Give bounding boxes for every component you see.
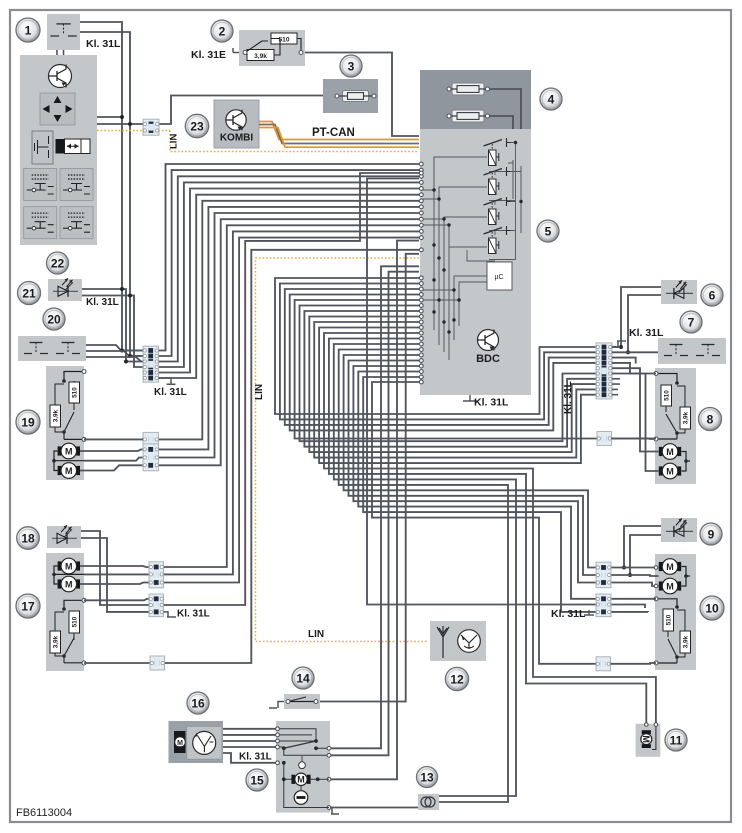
svg-text:FB6113004: FB6113004 (16, 807, 72, 819)
LIN dotted bus 2 (256, 258, 429, 642)
ignition switch component 2 (239, 30, 305, 66)
wire BDC to C5 pin3 (U-route) (285, 289, 596, 425)
wire C9 to box8 bottom (612, 438, 657, 440)
svg-text:21: 21 (22, 286, 36, 300)
svg-text:Kl. 31L: Kl. 31L (154, 387, 187, 398)
bus wire motors 17 (54, 566, 84, 584)
fuse component 3 (323, 79, 378, 113)
ground tail box14 (269, 702, 284, 709)
wire BDC to C4 row2 (159, 213, 420, 458)
svg-text:M: M (666, 581, 674, 591)
instrument cluster KOMBI component 23 (214, 100, 259, 148)
svg-text:3,9k: 3,9k (683, 411, 690, 424)
svg-text:5: 5 (545, 224, 552, 238)
resistor network in 17 (64, 600, 84, 609)
connector C4 (143, 444, 159, 471)
svg-text:M: M (666, 562, 674, 572)
ground tail box15 (330, 808, 339, 815)
label circle 1 (16, 18, 40, 42)
fuse 4a (452, 83, 484, 95)
wires inside 15 (284, 763, 329, 808)
wire component1 pin2 down to connector C2 pin2 (80, 32, 143, 356)
wire BDC to C5 pin2 (U-route) (280, 284, 596, 420)
svg-text:LIN: LIN (308, 629, 324, 640)
svg-text:M: M (65, 446, 73, 456)
label circle 23 (185, 114, 208, 137)
switch component 14 (284, 694, 320, 709)
stub wires C5 lower rows (612, 379, 620, 395)
wire C7 to box10 (612, 598, 657, 600)
wire box20 pin1 to C2 pin1 (86, 345, 143, 351)
svg-text:M: M (666, 447, 674, 457)
svg-text:510: 510 (666, 614, 673, 625)
svg-text:3,9k: 3,9k (53, 409, 60, 422)
wire component2 to BDC (305, 53, 419, 137)
svg-text:6: 6 (709, 288, 716, 302)
wire BDC to C5 pin8 (U-route) (309, 317, 596, 453)
svg-text:23: 23 (190, 119, 204, 133)
wire LED6 pin1 down (621, 287, 661, 347)
wire C6 common (612, 575, 659, 576)
PT-CAN wire gray (259, 125, 419, 144)
svg-text:17: 17 (21, 599, 35, 613)
wire box19 M1 to C4 row1 (80, 449, 143, 451)
wire component1 pin1 down to connector C2 pin1 (80, 22, 143, 351)
wire BDC to C7 row3 (363, 377, 596, 612)
wire fuse4a down (489, 89, 521, 166)
fan unit component 16 (169, 721, 224, 763)
wire module to v122 junction (97, 116, 122, 118)
svg-text:Kl. 31E: Kl. 31E (191, 49, 226, 61)
motor M in 17 upper (58, 558, 80, 574)
svg-text:3,9k: 3,9k (53, 635, 60, 648)
svg-text:KOMBI: KOMBI (220, 133, 254, 144)
wire box16 to box15 w1 (223, 728, 276, 730)
svg-text:M: M (177, 740, 183, 747)
wire box16 to box15 w5 ground (223, 753, 276, 763)
svg-text:M: M (641, 735, 651, 743)
svg-text:Kl. 31L: Kl. 31L (239, 752, 272, 763)
relays in BDC (489, 150, 497, 166)
connector C10 (149, 562, 164, 588)
wire C5 row1 ground (612, 346, 620, 348)
wire C7 row3 to box10 (612, 611, 649, 613)
pin box17 (82, 598, 86, 602)
motor component 11 (636, 724, 661, 757)
svg-text:µC: µC (494, 274, 503, 281)
svg-text:M: M (297, 775, 305, 785)
svg-text:BDC: BDC (476, 353, 500, 365)
wire BDC to C10 row1 (159, 225, 420, 567)
svg-text:13: 13 (420, 770, 434, 784)
svg-text:M: M (666, 466, 674, 476)
pin fuse outputs (519, 130, 523, 134)
wire BDC to motor11 pin2 feeder (329, 339, 646, 724)
wire BDC to C11 row2 (159, 173, 420, 605)
LIN dotted from module via C1 to BDC (97, 130, 170, 132)
svg-text:3: 3 (348, 59, 355, 73)
wire box17 common to C10 row2 (84, 573, 149, 575)
svg-text:Kl. 31L: Kl. 31L (629, 327, 664, 339)
svg-text:3,9k: 3,9k (254, 53, 267, 60)
wire BDC to C5 pin6 (U-route) (300, 306, 597, 442)
wire BDC to C2 pin5 (159, 189, 420, 373)
wire LED21 pin1 down to C2 pin3 (82, 289, 143, 362)
connector C5 (596, 343, 612, 399)
svg-text:18: 18 (21, 531, 35, 545)
ground tail C5 top (612, 341, 626, 347)
connector C6 (596, 562, 611, 588)
wire box16 to box15 w2 (223, 734, 276, 736)
BDC internal wiring (423, 157, 487, 190)
fuse carrier component 4 (420, 70, 531, 129)
wire C7 row2 to box10 (612, 605, 646, 609)
PT-CAN wire orange 2 (259, 128, 419, 148)
long wire BDC to switch14 via v406 (320, 254, 419, 702)
wire box17 M2 to C10 row3 (80, 583, 149, 585)
wire box17 bottom to C12 (84, 662, 150, 664)
connector C11 (149, 594, 164, 617)
label circle 6 (701, 284, 723, 306)
wire LED18 pin2 to C11 row3 (81, 538, 149, 612)
label circle 18 (17, 527, 40, 550)
motor M in 15 (291, 773, 310, 785)
sensor component 13 (418, 794, 439, 810)
wire LED6 pin2 down (628, 295, 661, 352)
wire BDC to C4 row3 (159, 219, 420, 465)
pins box11 (645, 723, 649, 727)
label circle 19 (16, 410, 40, 434)
motor M in 10 upper (659, 559, 681, 575)
long wire BDC to box15 pin1 via v379 (329, 266, 419, 748)
svg-text:4: 4 (548, 92, 555, 106)
label circle 21 (18, 282, 41, 305)
svg-text:Kl. 31L: Kl. 31L (86, 38, 121, 50)
wire C5 to box8 M2 (612, 374, 659, 472)
connector C12 (150, 656, 165, 670)
svg-text:Kl. 31L: Kl. 31L (86, 297, 119, 308)
wire BDC to sensor13 pin2 feeder (339, 350, 508, 803)
label circle 14 (292, 667, 314, 689)
wire BDC to C2 pin2 (159, 170, 420, 356)
svg-text:Kl. 31L: Kl. 31L (551, 608, 586, 620)
label circle 5 (537, 220, 559, 242)
long wire BDC to box15 pin3 via v397 (329, 241, 419, 780)
svg-text:11: 11 (670, 733, 683, 747)
wire BDC to C2 pin1 (159, 164, 420, 351)
label circle 11 (665, 729, 687, 751)
svg-text:8: 8 (707, 412, 714, 426)
component 1 switch box (47, 14, 80, 50)
connector C7 (596, 594, 611, 617)
svg-text:510: 510 (72, 387, 79, 398)
microcontroller box in BDC (487, 262, 512, 290)
wire BDC to C10 row2 (159, 231, 420, 574)
label circle 9 (700, 523, 722, 545)
label circle 22 (47, 252, 69, 274)
wire C6 to box10 M2 (612, 583, 659, 587)
minus symbol in 15 (294, 791, 308, 805)
motor M in 8 lower (659, 463, 681, 479)
wire BDC to C12 row (component 17 return) (164, 250, 420, 663)
bus wire motors 19 (54, 451, 84, 471)
svg-text:20: 20 (47, 312, 61, 326)
wire component1 to module (double) (57, 50, 64, 55)
bus wire motors 10 (682, 567, 691, 587)
wire box17 M1 to C10 row1 (80, 566, 149, 567)
connector C8 (596, 657, 611, 671)
svg-text:22: 22 (51, 256, 65, 270)
connector C1 (143, 119, 159, 135)
svg-text:7: 7 (688, 315, 695, 329)
svg-text:2: 2 (219, 24, 226, 38)
wire BDC to C5 pin9 (U-route) (314, 322, 596, 458)
body domain controller BDC component 5 (420, 129, 531, 395)
svg-text:10: 10 (705, 601, 719, 615)
motor M in 10 lower (659, 578, 681, 594)
relay feed bus (513, 160, 521, 233)
window-lift switch component 19 (46, 366, 84, 480)
svg-text:12: 12 (450, 672, 464, 686)
motor M in 8 upper (659, 444, 681, 460)
label circle 7 (680, 311, 702, 333)
svg-text:510: 510 (72, 616, 79, 627)
ground tail C2 (159, 378, 176, 384)
svg-text:M: M (65, 579, 73, 589)
long wire BDC to box15 pin2 via v385 (329, 272, 419, 756)
wire box16 to box15 w4 (223, 746, 276, 748)
wire box20 pin3 to C2 pin3 (86, 357, 143, 362)
wire BDC to C3 row (159, 201, 420, 440)
wire C8 to box10 bottom (611, 662, 657, 665)
svg-text:M: M (65, 561, 73, 571)
label circle 20 (43, 308, 65, 330)
BDC left pins group1 (419, 162, 423, 166)
label circle 12 (445, 667, 468, 690)
wire module through connector C1 to fuse 3 (97, 96, 323, 125)
svg-text:15: 15 (250, 773, 264, 787)
wire LED21 pin2 down to C2 pin4 (82, 296, 143, 368)
svg-text:9: 9 (708, 527, 715, 541)
wire C5 to box7 pin1 (612, 351, 658, 353)
wire BDC to C6 row3 (353, 366, 596, 583)
svg-text:510: 510 (664, 390, 671, 401)
wire BDC to sensor13 pin1 feeder (334, 344, 516, 796)
motor M in 17 lower (58, 576, 80, 592)
switch unit component 7 (658, 338, 726, 364)
label circle 8 (699, 408, 722, 431)
PT-CAN wire orange 1 (259, 122, 419, 140)
label circle 10 (700, 596, 724, 620)
bus wire motors 8 (682, 452, 691, 472)
wire BDC to C5 pin7 (U-route) (304, 311, 596, 447)
connector C9 (597, 432, 612, 446)
svg-text:Kl. 31L: Kl. 31L (563, 381, 574, 414)
wire C5 to box7 pin2 via jog (612, 358, 636, 364)
label circle 3 (340, 55, 362, 77)
label circle 4 (540, 88, 562, 110)
wire box19 common to C4 row2 (84, 458, 143, 461)
wire BDC to motor11 pin1 feeder (324, 333, 656, 723)
long wire BDC to C7 row2 via v367 (367, 179, 596, 605)
wire BDC to C6 row1 (344, 355, 596, 568)
LED lamp component 18 (47, 526, 81, 548)
wire BDC to C6 row2 (349, 361, 597, 576)
wire C6 to box10 M1 (612, 567, 659, 569)
svg-text:LIN: LIN (254, 384, 265, 400)
wire box20 pin2 to C2 pin2 (86, 351, 143, 356)
switch unit component 20 (18, 336, 86, 361)
label circle 15 (246, 769, 268, 791)
wire box19 pin2 to C3 (84, 438, 143, 440)
connector C2 (143, 346, 159, 382)
wire BDC to C4 row1 (159, 207, 420, 450)
wire C5 to box8 top pin (612, 363, 656, 374)
wire box16 to box15 w3 (223, 740, 276, 742)
label circle 13 (417, 767, 438, 788)
wire box19 M2 to C4 row3 (80, 465, 143, 470)
wire box17 switch pin to C11 row1 (84, 599, 149, 601)
wire LED18 pin1 to C11 row2 (81, 531, 149, 605)
wire BDC to C7 row1 (358, 372, 596, 599)
resistor network in 10 (656, 599, 677, 607)
wire LED9 pin2 down (630, 535, 661, 575)
svg-text:LIN: LIN (169, 134, 180, 149)
driver door switch module (20, 55, 97, 245)
svg-text:Kl. 31L: Kl. 31L (474, 397, 509, 409)
svg-text:Kl. 31L: Kl. 31L (177, 609, 210, 620)
wire fuse4b down (489, 116, 513, 160)
svg-text:1: 1 (25, 23, 32, 37)
wire LED9 pin1 down (624, 526, 661, 568)
label Kl. 31L BDC ground (463, 395, 477, 401)
wire C5 to box8 M1 (612, 368, 659, 451)
svg-text:16: 16 (191, 696, 205, 710)
antenna clock module component 12 (430, 621, 486, 661)
LED lamp component 6 (661, 280, 697, 304)
wire BDC to C5 pin1 (U-route) (275, 278, 596, 414)
wire box13 ground to box15 (329, 807, 418, 809)
LED lamp component 9 (661, 518, 697, 542)
motor M in 19 lower (58, 463, 80, 479)
wire BDC to C5 pin10 (U-route) (319, 328, 596, 464)
svg-text:14: 14 (296, 671, 310, 685)
label circle 16 (187, 692, 209, 714)
pin box19 top (82, 370, 86, 374)
wire BDC to C5 pin4 (U-route) (290, 295, 596, 431)
mirror unit component 17 (46, 553, 84, 671)
fuse 4b (452, 110, 484, 122)
connector C3 (143, 432, 159, 446)
svg-text:M: M (65, 466, 73, 476)
label circle 17 (16, 594, 40, 618)
wire BDC to C2 pin3 (159, 176, 420, 361)
svg-text:19: 19 (21, 415, 35, 429)
label circle 2 (211, 20, 233, 42)
BDC left pins group2 (419, 276, 423, 280)
wire BDC to C8 and component 10 bottom (372, 382, 596, 664)
wiper motor unit component 15 (276, 721, 330, 813)
wire BDC to C2 pin6 (159, 195, 420, 378)
BDC transistor symbol (478, 330, 499, 351)
wire BDC to C10 row3 (159, 238, 420, 583)
svg-text:3,9k: 3,9k (683, 635, 690, 648)
motor M in 19 upper (58, 443, 80, 459)
svg-text:PT-CAN: PT-CAN (312, 127, 355, 139)
heater unit component 8 (655, 368, 696, 484)
wire BDC to C2 pin4 (159, 182, 420, 367)
ground tail C11 (164, 612, 177, 617)
LED lamp component 21 (48, 279, 82, 301)
wire BDC to C9 and component 8 bottom (295, 300, 656, 439)
seat unit component 10 (655, 554, 696, 670)
